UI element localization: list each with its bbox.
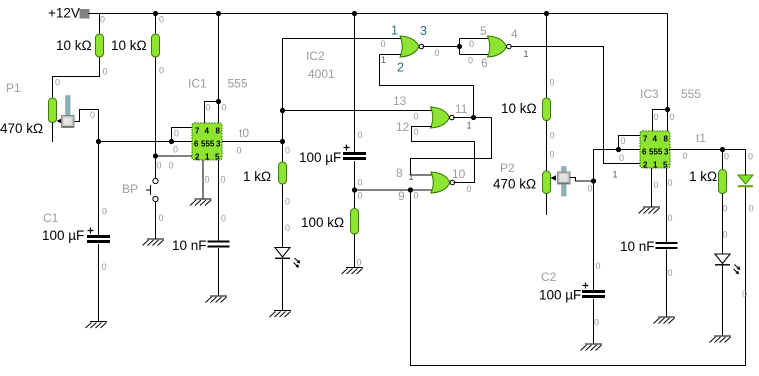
svg-text:10: 10	[452, 167, 466, 181]
nor-gate IC2d	[431, 172, 455, 193]
svg-text:1 kΩ: 1 kΩ	[689, 169, 717, 184]
nor-gate IC2c	[431, 107, 455, 128]
svg-text:0: 0	[742, 289, 747, 299]
node B junction	[352, 187, 357, 192]
wire rail to R1	[99, 14, 101, 35]
svg-text:10 kΩ: 10 kΩ	[56, 38, 92, 53]
svg-text:0: 0	[550, 150, 555, 160]
wire gate4 output to gate3 pin12	[412, 127, 475, 183]
svg-text:1: 1	[409, 172, 414, 182]
resistor R6 1k	[719, 170, 727, 194]
wire t0 down to R3	[282, 142, 284, 163]
junction pin9	[408, 187, 413, 192]
node t0 junction	[280, 139, 285, 144]
svg-text:555: 555	[228, 77, 248, 91]
wire C3 to ground	[218, 248, 220, 296]
svg-text:0: 0	[683, 151, 688, 161]
push button BP	[146, 178, 158, 201]
resistor R2 10k	[152, 34, 160, 57]
svg-text:0: 0	[670, 112, 675, 122]
svg-text:+12V: +12V	[48, 6, 80, 21]
wire node B down to R4	[354, 190, 356, 209]
wire node B to gate4 pin9	[355, 189, 433, 191]
svg-text:IC2: IC2	[306, 49, 325, 63]
svg-text:0: 0	[221, 175, 226, 185]
svg-text:1: 1	[653, 160, 658, 169]
svg-text:0: 0	[594, 318, 599, 328]
svg-text:0: 0	[723, 230, 728, 240]
svg-text:2: 2	[643, 160, 648, 169]
junction pin4-pin8	[216, 99, 221, 104]
wire rail to IC1 pin8	[218, 14, 220, 124]
svg-text:0: 0	[621, 136, 626, 146]
svg-text:C2: C2	[541, 270, 557, 284]
svg-text:7: 7	[195, 127, 200, 136]
svg-text:11: 11	[455, 102, 468, 116]
svg-text:0: 0	[221, 214, 226, 224]
capacitor C1 100uF	[87, 228, 110, 242]
wire t1 down to R6	[722, 150, 724, 170]
svg-text:100 µF: 100 µF	[299, 150, 341, 165]
wire IC1 pin1 to ground	[202, 160, 204, 199]
wire P2 wiper to node C	[570, 178, 594, 182]
svg-text:0: 0	[205, 175, 210, 185]
wire pin11 to gate4 pin8	[411, 118, 492, 176]
junction pin11	[471, 115, 476, 120]
svg-text:BP: BP	[122, 182, 138, 196]
ground C5	[654, 317, 676, 324]
P2 wiper arrow	[551, 175, 557, 180]
svg-text:1 kΩ: 1 kΩ	[243, 169, 271, 184]
ground BP	[143, 239, 165, 246]
ground C3	[206, 296, 228, 303]
svg-text:555: 555	[201, 140, 215, 149]
svg-text:0: 0	[435, 48, 440, 58]
resistor R5 10k	[543, 98, 551, 121]
svg-text:0: 0	[237, 146, 242, 156]
svg-text:12: 12	[396, 120, 410, 134]
wire t0 to gate3 pin13	[283, 110, 433, 112]
svg-text:1: 1	[391, 24, 398, 38]
ground C2	[581, 344, 603, 351]
wire IC1 pin5 down	[218, 160, 220, 241]
svg-text:0: 0	[654, 112, 659, 122]
ground LED1	[270, 311, 292, 318]
svg-text:1: 1	[524, 49, 529, 59]
wire node C down to C2	[593, 181, 595, 291]
svg-text:2: 2	[195, 152, 200, 161]
svg-text:t1: t1	[696, 131, 706, 145]
capacitor C2 100uF	[582, 283, 605, 297]
P2 wiper knob	[558, 167, 571, 197]
wire to IC3 pin6	[619, 149, 641, 151]
wire R2 to pin2 node	[155, 57, 157, 179]
wire IC3 pin4 stub	[653, 110, 668, 132]
wire P2 bottom stub	[546, 194, 548, 216]
svg-text:t0: t0	[239, 126, 249, 140]
wire C1 to ground	[98, 244, 100, 322]
wire IC3 pin7 stub	[619, 136, 641, 150]
wire gate2 input tie	[460, 39, 490, 55]
junction pin6-pin7	[169, 139, 174, 144]
svg-text:0: 0	[550, 78, 555, 88]
svg-text:9: 9	[398, 189, 405, 203]
+12V terminal	[80, 9, 90, 19]
svg-text:1: 1	[381, 55, 386, 65]
svg-text:0: 0	[358, 178, 363, 188]
svg-text:0: 0	[358, 191, 363, 201]
svg-text:0: 0	[159, 15, 164, 25]
svg-text:IC3: IC3	[640, 87, 659, 101]
junction rail-IC1pin8	[216, 11, 221, 16]
LED D1	[275, 248, 300, 268]
svg-text:6: 6	[642, 148, 647, 157]
svg-text:1: 1	[205, 152, 210, 161]
wire gate1 output	[423, 46, 460, 48]
wire BP to ground	[155, 202, 157, 240]
svg-text:0: 0	[724, 152, 729, 162]
svg-text:8: 8	[396, 166, 403, 180]
svg-text:4: 4	[653, 135, 658, 144]
nor-gate IC2a	[400, 36, 424, 57]
junction gate1out	[457, 44, 462, 49]
wire R5 to P2	[546, 121, 548, 172]
wire R6 to LED3	[722, 194, 724, 255]
wire pin9 node to bottom loop	[411, 187, 746, 366]
svg-text:0: 0	[100, 15, 105, 25]
svg-text:0: 0	[550, 131, 555, 141]
wire P1 bottom stub	[52, 123, 54, 143]
svg-text:1: 1	[467, 121, 472, 131]
svg-text:0: 0	[414, 127, 419, 137]
wire Cmid to node B	[354, 161, 356, 190]
svg-text:4001: 4001	[308, 67, 335, 81]
svg-text:0: 0	[668, 178, 673, 188]
wire IC1 pin3 to t0	[222, 141, 283, 143]
capacitor C4 100uF	[343, 145, 366, 159]
svg-text:0: 0	[748, 152, 753, 162]
ground LED3	[710, 336, 732, 343]
potentiometer P2 track	[543, 171, 551, 194]
junction t0-pin13	[280, 108, 285, 113]
junction IC3 pin6-pin7	[616, 147, 621, 152]
svg-text:P2: P2	[500, 161, 515, 175]
junction rail-R2	[153, 11, 158, 16]
op-amp timer U1 IC1 555	[192, 123, 222, 161]
capacitor 10nF C3	[208, 242, 230, 247]
svg-text:470 kΩ: 470 kΩ	[493, 177, 536, 192]
junction rail-Cmid	[352, 11, 357, 16]
svg-text:0: 0	[358, 130, 363, 140]
svg-text:0: 0	[414, 191, 419, 201]
ground IC1 pin1	[190, 199, 212, 206]
svg-text:100 µF: 100 µF	[539, 288, 581, 303]
wire IC3 pin1 to ground	[651, 168, 653, 207]
svg-text:2: 2	[397, 61, 404, 75]
potentiometer P1 track	[49, 98, 57, 123]
wire R3 to LED1	[282, 184, 284, 248]
wire node C up to IC3 pin6	[594, 150, 619, 182]
P1 wiper arrow	[57, 118, 63, 123]
svg-text:0: 0	[654, 180, 659, 190]
svg-text:4: 4	[205, 127, 210, 136]
svg-text:0: 0	[588, 184, 593, 194]
svg-text:0: 0	[357, 258, 362, 268]
svg-text:100 kΩ: 100 kΩ	[301, 215, 344, 230]
wire t0 to gate1 input1	[283, 38, 402, 40]
svg-text:0: 0	[749, 204, 754, 214]
node pin2 junction	[153, 153, 158, 158]
node t1 junction	[720, 147, 725, 152]
wire LED2 top to t1	[723, 150, 746, 176]
wire LED1 to ground	[282, 259, 284, 311]
wire rail to R2	[155, 14, 157, 35]
svg-text:470 kΩ: 470 kΩ	[0, 121, 43, 136]
svg-text:6: 6	[481, 56, 488, 70]
svg-text:0: 0	[414, 112, 419, 122]
svg-text:0: 0	[169, 161, 174, 171]
wire pin2 of IC1	[156, 155, 193, 157]
svg-text:10 nF: 10 nF	[620, 239, 655, 254]
svg-text:555: 555	[649, 148, 663, 157]
svg-text:0: 0	[596, 261, 601, 271]
wire t0 up	[282, 39, 284, 142]
wire gate1 input2	[380, 55, 474, 118]
svg-text:3: 3	[216, 140, 221, 149]
svg-text:0: 0	[467, 184, 472, 194]
resistor R1 10k	[96, 34, 104, 57]
svg-text:0: 0	[469, 39, 474, 49]
junction IC3 pin4-pin8	[665, 107, 670, 112]
svg-text:4: 4	[511, 27, 518, 41]
svg-text:5: 5	[215, 152, 220, 161]
resistor R3 1k	[279, 162, 287, 184]
svg-text:0: 0	[173, 145, 178, 155]
LED D3	[715, 254, 740, 274]
ground R4	[342, 268, 364, 275]
wire rail down to Cmid	[354, 14, 356, 154]
svg-text:0: 0	[157, 161, 162, 171]
svg-text:10 kΩ: 10 kΩ	[111, 38, 147, 53]
svg-text:3: 3	[420, 24, 427, 38]
nor-gate IC2b	[488, 36, 512, 57]
svg-text:0: 0	[206, 103, 211, 113]
wire C2 to ground	[593, 299, 595, 344]
wire LED3 to ground	[722, 265, 724, 336]
resistor R4 100k	[351, 209, 359, 235]
svg-text:0: 0	[668, 213, 673, 223]
svg-text:0: 0	[102, 262, 107, 272]
wire rail corner to IC3 pin8	[667, 14, 669, 132]
svg-text:10 kΩ: 10 kΩ	[501, 101, 537, 116]
wire gate2 output to IC3 pin2	[511, 47, 641, 164]
wire R1 to P1 top	[53, 57, 100, 98]
svg-text:P1: P1	[6, 81, 21, 95]
svg-text:555: 555	[681, 87, 701, 101]
svg-text:6: 6	[194, 140, 199, 149]
svg-text:0: 0	[103, 67, 108, 77]
wire P1 wiper to node A	[75, 110, 99, 142]
junction rail-R5	[544, 11, 549, 16]
svg-text:0: 0	[285, 223, 290, 233]
wire +12V rail	[88, 13, 668, 15]
svg-text:1: 1	[613, 170, 618, 180]
P1 wiper knob	[62, 96, 75, 128]
svg-text:0: 0	[619, 153, 624, 163]
svg-text:0: 0	[723, 204, 728, 214]
ground C1	[86, 322, 108, 329]
node C junction	[591, 178, 596, 183]
capacitor 10nF C5	[656, 243, 678, 248]
svg-text:0: 0	[222, 103, 227, 113]
svg-text:IC1: IC1	[188, 77, 207, 91]
wire node A to IC1 pin6	[99, 141, 193, 143]
wire IC1 pin4 stub	[205, 102, 219, 124]
svg-text:0: 0	[668, 268, 673, 278]
svg-text:0: 0	[102, 207, 107, 217]
ground IC3 pin1	[639, 207, 661, 214]
svg-text:7: 7	[643, 135, 648, 144]
svg-text:0: 0	[159, 66, 164, 76]
svg-text:0: 0	[55, 78, 60, 88]
svg-text:0: 0	[159, 213, 164, 223]
wire IC3 pin3 to t1	[669, 149, 723, 151]
wire rail to R5	[546, 14, 548, 99]
svg-text:5: 5	[663, 160, 668, 169]
svg-text:0: 0	[468, 56, 473, 66]
wire IC3 pin5 down	[666, 168, 668, 243]
svg-text:0: 0	[285, 146, 290, 156]
wire gate3 output	[453, 117, 492, 119]
svg-text:C1: C1	[43, 211, 59, 225]
wire node A down to C1	[98, 142, 100, 237]
svg-text:8: 8	[664, 135, 669, 144]
svg-text:0: 0	[285, 197, 290, 207]
LED D2 green lit	[738, 175, 753, 186]
svg-text:3: 3	[664, 148, 669, 157]
node A junction	[96, 139, 101, 144]
svg-text:5: 5	[480, 24, 487, 38]
op-amp timer U2 IC3 555	[640, 131, 670, 169]
svg-text:10 nF: 10 nF	[172, 238, 207, 253]
wire pin7 stub	[172, 128, 193, 142]
wire C5 to ground	[666, 250, 668, 318]
svg-text:0: 0	[90, 110, 95, 120]
svg-text:0: 0	[174, 129, 179, 139]
svg-text:0: 0	[381, 39, 386, 49]
wire R4 to ground	[354, 234, 356, 268]
svg-text:8: 8	[216, 127, 221, 136]
svg-text:13: 13	[393, 94, 407, 108]
svg-text:100 µF: 100 µF	[42, 228, 84, 243]
